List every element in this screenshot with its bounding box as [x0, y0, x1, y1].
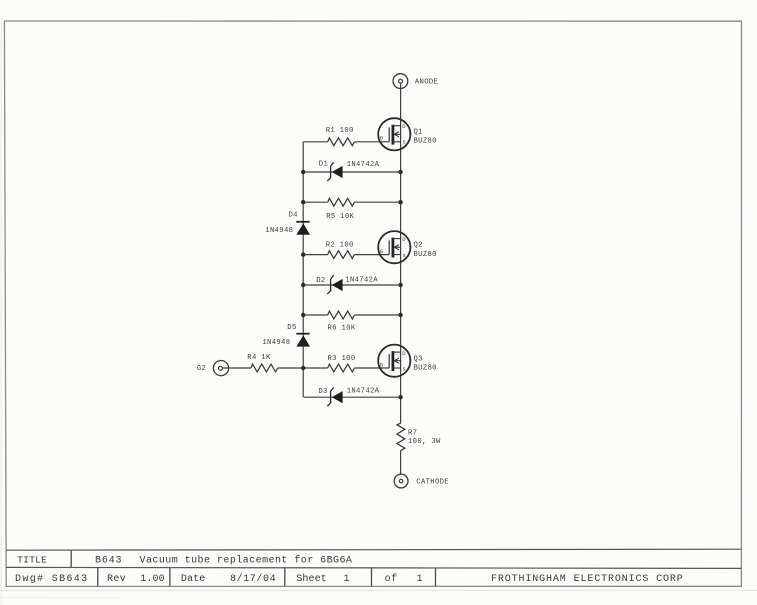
resistor R5 — [328, 198, 355, 206]
wire: G2 terminal to R4 — [222, 367, 251, 369]
svg-text:D: D — [402, 123, 406, 130]
junction: main rail / R6 — [398, 313, 402, 317]
transistor Q2 (BUZ80 MOSFET) — [378, 231, 410, 263]
wire: gate lead of Q1 (node of R1) — [303, 141, 389, 143]
svg-text:1N4742A: 1N4742A — [347, 387, 380, 395]
svg-text:R5 10K: R5 10K — [326, 213, 354, 221]
svg-text:1N4948: 1N4948 — [262, 339, 290, 347]
svg-text:R6 10K: R6 10K — [328, 325, 356, 333]
svg-text:1N4948: 1N4948 — [265, 227, 293, 235]
junction: left rail / R2 — [301, 252, 305, 256]
svg-text:Vacuum tube replacement for 6B: Vacuum tube replacement for 6BG6A — [140, 555, 353, 567]
terminal G2 — [213, 361, 228, 376]
terminal CATHODE — [394, 474, 408, 488]
svg-text:CATHODE: CATHODE — [416, 479, 449, 487]
svg-text:100, 3W: 100, 3W — [408, 438, 441, 446]
svg-text:BUZ80: BUZ80 — [414, 251, 437, 259]
wire: R5 row — [303, 201, 400, 203]
junction: left rail / D2 — [301, 283, 305, 287]
svg-text:BUZ80: BUZ80 — [414, 365, 437, 373]
junction: left rail / R6 — [301, 313, 305, 317]
junction: main rail / D1 — [398, 170, 402, 174]
junction: main rail / D2 — [398, 283, 402, 287]
svg-text:1: 1 — [417, 574, 424, 585]
svg-text:D: D — [402, 236, 406, 243]
svg-text:1.00: 1.00 — [140, 574, 164, 585]
resistor R6 — [328, 311, 355, 319]
svg-text:G: G — [380, 135, 384, 142]
transistor Q1 (BUZ80 MOSFET) — [378, 118, 410, 150]
wire: R6 row — [303, 314, 400, 316]
wire: gate lead of Q2 (node of R2) — [303, 254, 389, 256]
wire: left gate/divider rail — [302, 142, 304, 397]
svg-text:G2: G2 — [197, 365, 206, 373]
zener diode D3 — [327, 388, 342, 407]
zener diode D2 — [327, 275, 342, 294]
svg-text:D4: D4 — [289, 211, 298, 219]
transistor Q3 (BUZ80 MOSFET) — [378, 345, 410, 377]
junction: main rail / R5 — [398, 200, 402, 204]
resistor R2 — [328, 251, 355, 259]
junction: left rail / R5 — [301, 200, 305, 204]
svg-text:of: of — [385, 573, 398, 585]
svg-text:s: s — [402, 366, 406, 373]
scan streak artifacts — [0, 589, 757, 591]
svg-text:D1: D1 — [319, 161, 328, 169]
resistor R1 — [328, 138, 355, 146]
junction: left rail / D1 — [301, 170, 305, 174]
wire: zener D1 row — [303, 171, 400, 173]
svg-text:TITLE: TITLE — [17, 555, 47, 566]
svg-text:G: G — [380, 362, 384, 369]
svg-text:1: 1 — [344, 574, 351, 585]
svg-text:BUZ80: BUZ80 — [414, 138, 437, 146]
title block cell dividers — [71, 550, 435, 586]
svg-text:R2 100: R2 100 — [326, 241, 354, 249]
svg-text:Sheet: Sheet — [296, 573, 327, 585]
svg-text:ANODE: ANODE — [415, 79, 438, 87]
terminal ANODE — [393, 74, 408, 89]
svg-text:Q3: Q3 — [414, 355, 423, 363]
svg-text:D5: D5 — [287, 324, 296, 332]
wire: zener D3 row — [304, 396, 401, 398]
wire: R3 to Q3 gate — [354, 367, 389, 369]
svg-text:D3: D3 — [318, 388, 327, 396]
svg-text:G: G — [380, 248, 384, 255]
svg-text:1N4742A: 1N4742A — [345, 276, 378, 284]
diode D5 — [296, 334, 310, 347]
svg-text:Q1: Q1 — [414, 128, 423, 136]
wire: R4 to R3 (junction with left rail) — [278, 367, 328, 369]
resistor R3 — [328, 364, 355, 372]
svg-text:Rev: Rev — [107, 574, 126, 585]
resistor R4 — [251, 364, 278, 372]
svg-text:Dwg# SB643: Dwg# SB643 — [15, 574, 89, 585]
junction: left rail / R4-R3 — [301, 366, 305, 370]
title block horizontal rules — [6, 549, 742, 568]
svg-text:D2: D2 — [316, 277, 325, 285]
svg-text:R3 100: R3 100 — [328, 355, 356, 363]
svg-text:R4 1K: R4 1K — [247, 354, 271, 362]
svg-text:R1 100: R1 100 — [326, 127, 354, 135]
resistor R7 — [397, 423, 405, 450]
junction: main rail / D3 — [398, 395, 402, 399]
svg-text:FROTHINGHAM ELECTRONICS CORP: FROTHINGHAM ELECTRONICS CORP — [491, 574, 684, 585]
svg-text:D: D — [402, 350, 406, 357]
svg-text:s: s — [402, 252, 406, 259]
zener diode D1 — [327, 162, 342, 181]
wire: main anode-cathode rail (drain/source chain) — [400, 83, 402, 474]
svg-text:R7: R7 — [408, 430, 417, 438]
svg-text:s: s — [402, 139, 406, 146]
svg-text:Q2: Q2 — [414, 242, 423, 250]
svg-text:1N4742A: 1N4742A — [347, 161, 380, 169]
svg-text:8/17/04: 8/17/04 — [230, 573, 276, 585]
diode D4 — [296, 222, 310, 235]
svg-text:B643: B643 — [95, 556, 122, 567]
svg-text:Date: Date — [181, 574, 205, 585]
wire: zener D2 row — [303, 284, 400, 286]
